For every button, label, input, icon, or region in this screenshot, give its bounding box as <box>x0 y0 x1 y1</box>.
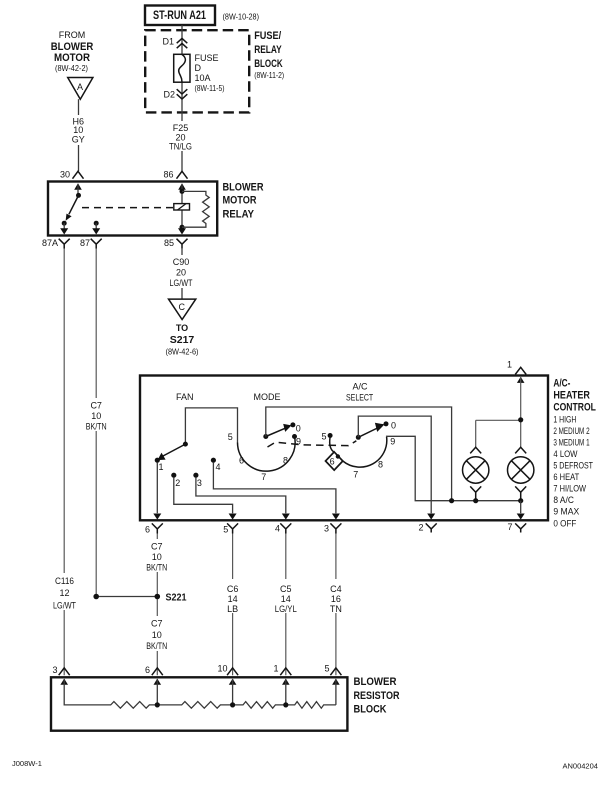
svg-text:TO: TO <box>176 323 188 333</box>
svg-text:D1: D1 <box>162 37 174 47</box>
svg-text:3: 3 <box>324 524 329 534</box>
svg-text:S217: S217 <box>170 334 195 346</box>
svg-text:S221: S221 <box>166 592 187 604</box>
svg-text:BLOWER: BLOWER <box>354 676 397 688</box>
svg-text:BLOCK: BLOCK <box>354 703 387 715</box>
svg-text:85: 85 <box>164 238 174 248</box>
svg-text:C: C <box>179 302 186 312</box>
svg-text:GY: GY <box>72 135 85 145</box>
svg-text:RELAY: RELAY <box>223 208 255 220</box>
svg-text:6 HEAT: 6 HEAT <box>553 472 579 482</box>
svg-text:(8W-42-2): (8W-42-2) <box>55 63 88 73</box>
svg-text:1: 1 <box>507 360 512 370</box>
svg-text:FAN: FAN <box>176 392 194 402</box>
svg-text:C7: C7 <box>151 619 163 629</box>
svg-text:10: 10 <box>217 663 227 673</box>
svg-text:TN/LG: TN/LG <box>169 142 192 152</box>
svg-text:(8W-10-28): (8W-10-28) <box>223 12 260 22</box>
svg-text:14: 14 <box>228 594 238 604</box>
svg-text:5 DEFROST: 5 DEFROST <box>553 461 593 471</box>
svg-text:10: 10 <box>152 552 162 562</box>
svg-text:7: 7 <box>507 522 512 532</box>
svg-text:3 MEDIUM 1: 3 MEDIUM 1 <box>553 437 589 447</box>
svg-text:MODE: MODE <box>254 392 281 402</box>
svg-text:6: 6 <box>239 455 244 465</box>
svg-text:C5: C5 <box>280 584 292 594</box>
svg-text:RELAY: RELAY <box>254 44 282 56</box>
svg-text:1: 1 <box>273 663 278 673</box>
svg-text:ST-RUN A21: ST-RUN A21 <box>153 10 206 22</box>
svg-text:8: 8 <box>283 455 288 465</box>
svg-text:8 A/C: 8 A/C <box>553 495 574 505</box>
svg-text:10: 10 <box>91 411 101 421</box>
svg-text:A/C-: A/C- <box>553 377 570 389</box>
svg-text:FUSE: FUSE <box>195 53 219 63</box>
svg-text:30: 30 <box>60 170 70 180</box>
svg-text:7 HI/LOW: 7 HI/LOW <box>553 484 586 494</box>
svg-text:9 MAX: 9 MAX <box>553 507 579 517</box>
svg-text:9: 9 <box>390 437 395 447</box>
svg-text:5: 5 <box>228 432 233 442</box>
svg-text:4: 4 <box>216 462 221 472</box>
svg-text:9: 9 <box>296 437 301 447</box>
svg-text:1 HIGH: 1 HIGH <box>553 414 576 424</box>
svg-text:7: 7 <box>261 472 266 482</box>
svg-text:12: 12 <box>59 588 69 598</box>
svg-text:HEATER: HEATER <box>553 389 590 401</box>
svg-text:(8W-42-6): (8W-42-6) <box>166 347 199 357</box>
svg-text:C116: C116 <box>55 576 74 586</box>
svg-text:14: 14 <box>281 594 291 604</box>
svg-text:6: 6 <box>145 525 150 535</box>
svg-text:3: 3 <box>197 478 202 488</box>
svg-text:D2: D2 <box>163 90 175 100</box>
svg-text:(8W-11-2): (8W-11-2) <box>254 70 284 80</box>
svg-text:TN: TN <box>330 604 342 614</box>
svg-text:(8W-11-5): (8W-11-5) <box>195 83 225 93</box>
svg-text:3: 3 <box>52 665 57 675</box>
svg-text:5: 5 <box>223 525 228 535</box>
svg-text:16: 16 <box>331 594 341 604</box>
svg-text:D: D <box>195 63 202 73</box>
svg-text:A/C: A/C <box>353 382 369 392</box>
svg-text:A: A <box>77 82 83 92</box>
svg-text:6: 6 <box>330 457 335 467</box>
svg-text:86: 86 <box>163 170 173 180</box>
svg-text:6: 6 <box>145 665 150 675</box>
svg-text:LG/YL: LG/YL <box>275 604 297 614</box>
svg-text:87: 87 <box>80 238 90 248</box>
svg-text:RESISTOR: RESISTOR <box>354 690 400 702</box>
svg-text:1: 1 <box>159 462 164 472</box>
svg-text:4: 4 <box>275 524 280 534</box>
svg-text:FUSE/: FUSE/ <box>254 30 281 42</box>
svg-text:2: 2 <box>175 478 180 488</box>
svg-text:BK/TN: BK/TN <box>146 641 167 651</box>
svg-text:0: 0 <box>391 420 396 430</box>
svg-text:BK/TN: BK/TN <box>146 562 167 572</box>
svg-text:C4: C4 <box>330 584 342 594</box>
svg-text:AN004204: AN004204 <box>563 761 598 770</box>
svg-text:CONTROL: CONTROL <box>553 401 596 413</box>
svg-text:J008W-1: J008W-1 <box>12 759 42 768</box>
svg-text:7: 7 <box>353 469 358 479</box>
svg-text:BLOWER: BLOWER <box>223 182 264 194</box>
svg-text:SELECT: SELECT <box>346 392 374 402</box>
svg-text:C7: C7 <box>90 401 102 411</box>
svg-text:0 OFF: 0 OFF <box>553 518 577 528</box>
svg-text:LG/WT: LG/WT <box>170 278 193 288</box>
svg-text:F25: F25 <box>173 123 189 133</box>
svg-text:2: 2 <box>418 523 423 533</box>
svg-text:10A: 10A <box>195 73 211 83</box>
svg-text:5: 5 <box>324 663 329 673</box>
svg-text:LB: LB <box>227 604 238 614</box>
svg-text:C6: C6 <box>227 584 239 594</box>
svg-text:BK/TN: BK/TN <box>86 421 107 431</box>
svg-text:LG/WT: LG/WT <box>53 600 76 610</box>
svg-text:4 LOW: 4 LOW <box>553 449 578 459</box>
svg-text:BLOCK: BLOCK <box>254 58 283 70</box>
svg-text:87A: 87A <box>42 238 58 248</box>
svg-text:20: 20 <box>176 268 186 278</box>
svg-text:FROM: FROM <box>59 30 86 40</box>
svg-text:C90: C90 <box>173 257 190 267</box>
svg-text:MOTOR: MOTOR <box>223 195 257 207</box>
svg-text:2 MEDIUM 2: 2 MEDIUM 2 <box>553 426 589 436</box>
svg-text:C7: C7 <box>151 541 163 551</box>
svg-text:5: 5 <box>321 431 326 441</box>
svg-text:8: 8 <box>378 459 383 469</box>
svg-text:10: 10 <box>152 630 162 640</box>
svg-text:0: 0 <box>296 423 301 433</box>
